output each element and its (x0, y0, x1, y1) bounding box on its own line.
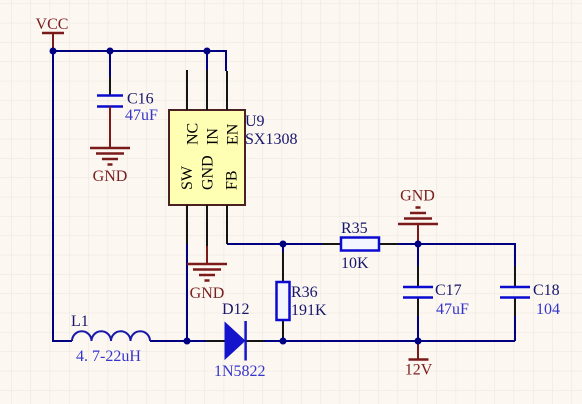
junction node R36 / bottom rail (280, 338, 287, 345)
power port 12V (405, 341, 433, 379)
pin: R36 bottom lead (282, 320, 284, 337)
wire: C16 branch from top rail (109, 51, 111, 77)
pin: D12 anode lead (206, 340, 225, 342)
svg-text:FB: FB (224, 170, 241, 190)
pin: R35 right lead (379, 243, 398, 245)
resistor R36 (277, 282, 328, 320)
svg-text:D12: D12 (222, 301, 250, 318)
pin: D12 cathode lead (245, 340, 264, 342)
svg-text:1N5822: 1N5822 (214, 363, 266, 380)
svg-text:C17: C17 (435, 282, 462, 299)
capacitor C18 (500, 282, 560, 318)
wire: bottom rail diode to C18 (264, 340, 515, 342)
wire: C18 bottom lead (514, 316, 516, 341)
svg-text:GND: GND (93, 168, 128, 185)
ground GND below C16 (90, 107, 130, 186)
ground GND above C17 node (398, 188, 438, 245)
wire: bottom rail L1 to diode (150, 340, 206, 342)
junction node IN / top rail (204, 48, 211, 55)
svg-text:IN: IN (205, 128, 222, 145)
svg-text:47uF: 47uF (125, 107, 158, 124)
wire: FB to feedback node (227, 243, 322, 245)
svg-text:12V: 12V (405, 362, 433, 379)
capacitor C17 (403, 282, 469, 318)
svg-text:47uF: 47uF (436, 301, 469, 318)
diode D12 (214, 301, 266, 380)
capacitor C16 (97, 91, 158, 125)
svg-text:4. 7-22uH: 4. 7-22uH (76, 348, 141, 365)
svg-text:GND: GND (400, 188, 435, 205)
pin EN (225, 71, 242, 145)
svg-text:U9: U9 (245, 113, 265, 130)
wire: R36 bottom lead (282, 337, 284, 341)
pin: R35 left lead (322, 243, 341, 245)
pin SW (179, 165, 196, 244)
svg-text:10K: 10K (341, 255, 369, 272)
pin NC (stub, no connection) (185, 70, 202, 145)
inductor L1 (71, 313, 150, 365)
IC U9 SX1308 (169, 110, 297, 205)
junction node VCC rail / left wire (50, 48, 57, 55)
svg-text:C16: C16 (127, 91, 154, 108)
wire: R35 right to C17 node (398, 243, 418, 245)
resistor R35 (341, 220, 379, 272)
svg-text:EN: EN (225, 123, 242, 145)
pin: C18 top lead (514, 266, 516, 287)
wire: left vertical down to bottom rail (53, 51, 72, 341)
wire: C17 node to C18 branch (418, 244, 515, 266)
pin IN (205, 70, 222, 145)
pin: C17 bottom lead (417, 298, 419, 317)
power port VCC (36, 16, 69, 51)
wire: R36 top lead (282, 244, 284, 252)
svg-text:NC: NC (185, 123, 202, 145)
svg-text:191K: 191K (291, 302, 327, 319)
svg-text:VCC: VCC (36, 16, 69, 33)
svg-text:L1: L1 (71, 313, 89, 330)
svg-text:GND: GND (190, 285, 225, 302)
svg-text:R35: R35 (341, 220, 368, 237)
svg-text:C18: C18 (533, 282, 560, 299)
ground GND below IC (187, 246, 227, 302)
wire: IN pin connection (206, 51, 208, 70)
junction node SW / bottom rail (184, 338, 191, 345)
wire: SW pin down to bottom rail (186, 244, 188, 341)
pin: R36 top lead (282, 252, 284, 282)
pin: C17 top lead (417, 266, 419, 287)
svg-text:SW: SW (179, 165, 196, 190)
wire: C17 bottom lead (417, 316, 419, 341)
junction node C16 / top rail (107, 48, 114, 55)
svg-text:SX1308: SX1308 (245, 131, 297, 148)
wire: top horizontal VCC rail (53, 51, 226, 71)
wire: C17 top lead (417, 244, 419, 266)
junction node FB / R36 (280, 241, 287, 248)
pin GND (200, 155, 217, 246)
pin: C18 bottom lead (514, 298, 516, 317)
junction node C17 bottom / 12V (415, 338, 422, 345)
pin FB (224, 170, 241, 244)
svg-text:GND: GND (200, 155, 217, 190)
pin: C16 top lead (109, 77, 111, 95)
svg-text:R36: R36 (291, 284, 318, 301)
junction node C17 top / GND (415, 241, 422, 248)
svg-text:104: 104 (536, 301, 560, 318)
